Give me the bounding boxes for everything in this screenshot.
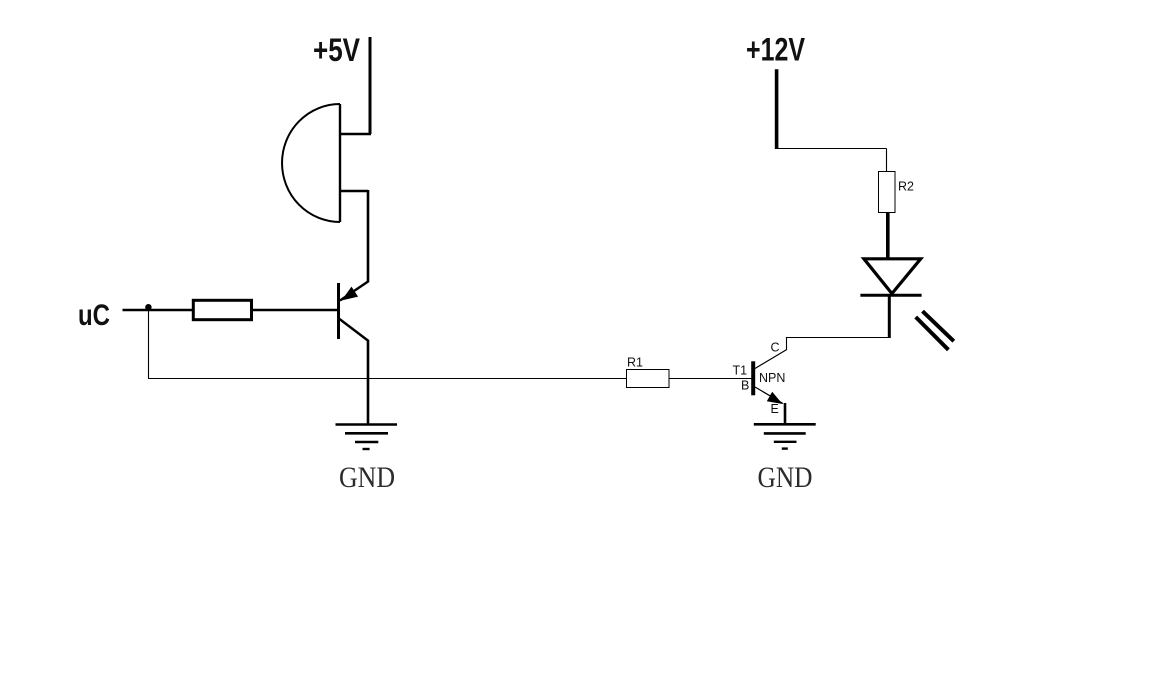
- transistor Q1 lower lead: [340, 319, 369, 341]
- wire Q1 emitter to ground: [367, 340, 370, 425]
- svg-text:R2: R2: [898, 180, 914, 194]
- svg-text:uC: uC: [78, 299, 110, 332]
- LED D1 triangle: [864, 259, 921, 294]
- speaker top stub wire: [339, 133, 371, 136]
- wire +5V vertical: [369, 37, 372, 134]
- ground (left): [336, 425, 398, 450]
- wire +12V thick bar: [775, 69, 779, 149]
- wire R2 to LED: [886, 213, 890, 259]
- node junction dot: [145, 304, 151, 310]
- speaker LS1 bar: [339, 104, 341, 222]
- transistor Q1 upper lead: [340, 281, 369, 301]
- wire collector riser: [786, 337, 788, 350]
- svg-text:E: E: [771, 402, 779, 416]
- svg-text:T1: T1: [733, 364, 748, 378]
- svg-text:C: C: [771, 341, 780, 355]
- LED D1 cathode bar: [860, 294, 921, 297]
- svg-text:NPN: NPN: [759, 371, 785, 385]
- wire resistor to Q1 base: [252, 309, 338, 311]
- wire R1 to T1 base: [669, 378, 752, 380]
- svg-text:GND: GND: [758, 462, 813, 494]
- transistor T1 emitter arrow: [767, 392, 783, 404]
- svg-text:+5V: +5V: [313, 32, 361, 68]
- ground (right): [754, 424, 816, 448]
- speaker bottom stub wire: [339, 190, 368, 193]
- resistor (base): [193, 300, 251, 319]
- resistor R1: [627, 370, 670, 388]
- svg-text:GND: GND: [339, 462, 395, 494]
- transistor T1 base bar: [751, 361, 755, 395]
- resistor R2: [879, 172, 896, 213]
- svg-text:R1: R1: [627, 356, 643, 370]
- transistor T1 collector lead: [755, 350, 787, 369]
- wire +12V to R2 horizontal: [776, 148, 887, 150]
- LED light ray 1: [923, 311, 954, 341]
- svg-text:B: B: [741, 379, 749, 393]
- LED light ray 2: [916, 317, 949, 350]
- wire uC lead: [123, 309, 194, 311]
- wire junction down: [148, 308, 150, 379]
- LED D1 cathode lead: [888, 295, 891, 338]
- wire speaker to transistor: [367, 190, 370, 282]
- wire T1 emitter to ground: [784, 403, 787, 425]
- transistor T1 emitter lead: [755, 387, 783, 404]
- transistor Q1 base bar: [337, 283, 340, 339]
- wire down to R2: [886, 149, 888, 172]
- transistor Q1 arrow: [342, 287, 359, 301]
- speaker LS1 dome arc: [282, 104, 340, 222]
- svg-text:+12V: +12V: [746, 32, 806, 68]
- wire long horizontal run: [148, 378, 627, 380]
- wire LED to T1 collector: [787, 337, 890, 339]
